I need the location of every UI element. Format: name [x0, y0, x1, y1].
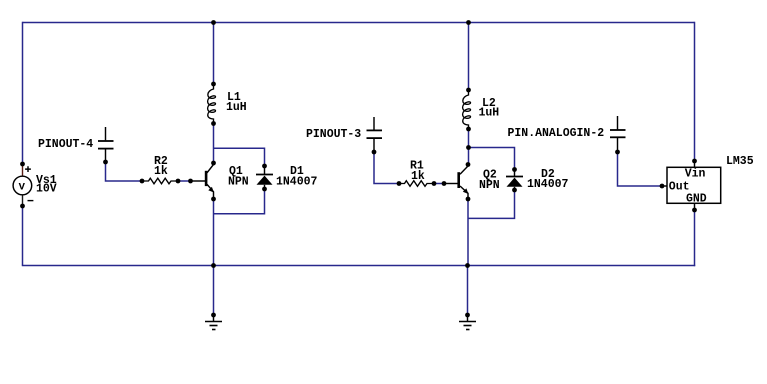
node Vs1 plus pin: [20, 162, 25, 167]
wire R2 to Q1 base: [178, 180, 191, 182]
wire L1 to Q1 collector: [213, 124, 215, 164]
diode D2: [506, 170, 523, 191]
node D2 anode pin: [512, 188, 517, 193]
wire Q1 emitter to bottom rail: [213, 199, 215, 266]
resistor R2: [142, 178, 178, 184]
node Q1 collector pin: [211, 161, 216, 166]
node Q2 emitter pin: [466, 197, 471, 202]
wire left rail upper: [22, 22, 24, 164]
node L2 pin 1: [466, 88, 471, 93]
IC U1 LM35 pin lead Vin: [694, 161, 696, 167]
node LM35 Out pin: [660, 184, 665, 189]
node top rail / L2: [466, 20, 471, 25]
node R1 pin 2: [432, 181, 437, 186]
wire right rail upper: [694, 22, 696, 161]
node bottom rail junction 2: [465, 263, 470, 268]
svg-text:1N4007: 1N4007: [527, 178, 569, 191]
wire D2 bottom branch: [468, 190, 515, 218]
diode D1: [256, 166, 273, 189]
svg-text:GND: GND: [686, 192, 707, 205]
transistor Q1: [191, 164, 214, 200]
node LM35 GND pin: [692, 208, 697, 213]
node ground 2 pin: [465, 313, 470, 318]
node ground 1 pin: [211, 313, 216, 318]
wire L2 to Q2 collector: [468, 129, 470, 165]
svg-text:PINOUT-3: PINOUT-3: [306, 128, 361, 141]
resistor R1: [399, 181, 434, 187]
wire bottom rail to ground 1: [213, 266, 215, 316]
wire D2 top branch: [469, 148, 515, 170]
wire L1 feed from top rail: [213, 23, 215, 85]
node LM35 Vin pin: [692, 159, 697, 164]
svg-text:1k: 1k: [154, 165, 168, 178]
node bottom rail junction 1: [211, 263, 216, 268]
wire bottom rail to ground 2: [467, 266, 469, 316]
IC U1 LM35: [667, 167, 721, 203]
node Q1 base pin: [188, 179, 193, 184]
node L2 pin 2: [466, 127, 471, 132]
node D1 anode pin: [262, 187, 267, 192]
inductor L2: [463, 90, 471, 129]
node Q2 base pin: [442, 181, 447, 186]
node R2 pin 1: [140, 179, 145, 184]
wire C2 to R1: [374, 152, 399, 184]
ground 2: [459, 315, 476, 330]
wire C1 to R2: [106, 162, 143, 181]
ground 1: [205, 315, 222, 330]
node C2 pin: [372, 150, 377, 155]
node C3 pin: [615, 150, 620, 155]
wire left rail lower: [22, 206, 24, 266]
node R1 pin 1: [397, 181, 402, 186]
node D2 cathode pin: [512, 167, 517, 172]
svg-text:PINOUT-4: PINOUT-4: [38, 138, 93, 151]
capacitor C2 PINOUT-3: [367, 117, 383, 152]
wire top rail: [23, 22, 695, 24]
wire C3 to LM35 Out: [618, 152, 663, 186]
node R2 pin 2: [176, 179, 181, 184]
svg-text:Vin: Vin: [685, 167, 706, 180]
wire right rail lower: [694, 210, 696, 266]
svg-text:NPN: NPN: [228, 175, 249, 188]
svg-text:PIN.ANALOGIN-2: PIN.ANALOGIN-2: [508, 127, 605, 140]
node Vs1 minus pin: [20, 204, 25, 209]
wire L2 feed from top rail: [468, 23, 470, 91]
transistor Q2: [444, 165, 468, 199]
wire D1 top branch: [214, 148, 265, 166]
wire Q2 emitter to bottom rail: [467, 199, 469, 266]
node D1 cathode pin: [262, 164, 267, 169]
svg-text:1uH: 1uH: [479, 107, 500, 120]
wire D1 bottom branch: [214, 189, 265, 214]
svg-text:1N4007: 1N4007: [276, 175, 318, 188]
node top rail / L1: [211, 20, 216, 25]
capacitor C1 PINOUT-4: [98, 127, 114, 162]
svg-text:NPN: NPN: [479, 179, 500, 192]
IC U1 LM35 pin lead Out: [662, 185, 667, 187]
inductor L1: [208, 84, 216, 124]
svg-text:LM35: LM35: [726, 155, 754, 168]
svg-text:10V: 10V: [36, 182, 57, 195]
node Q2 collector pin: [466, 162, 471, 167]
capacitor C3 PIN.ANALOGIN-2: [610, 116, 626, 152]
wire bottom rail: [22, 265, 695, 267]
svg-text:V: V: [19, 182, 26, 194]
svg-text:1k: 1k: [411, 170, 425, 183]
node L1 pin 2: [211, 121, 216, 126]
node C1 pin: [103, 160, 108, 165]
wire R1 to Q2 base: [434, 183, 444, 185]
svg-text:1uH: 1uH: [226, 101, 247, 114]
node L1 pin 1: [211, 82, 216, 87]
IC U1 LM35 pin lead GND: [694, 203, 696, 210]
node Q1 emitter pin: [211, 197, 216, 202]
node D2 top branch junction: [466, 145, 471, 150]
voltage source Vs1: [13, 164, 33, 206]
